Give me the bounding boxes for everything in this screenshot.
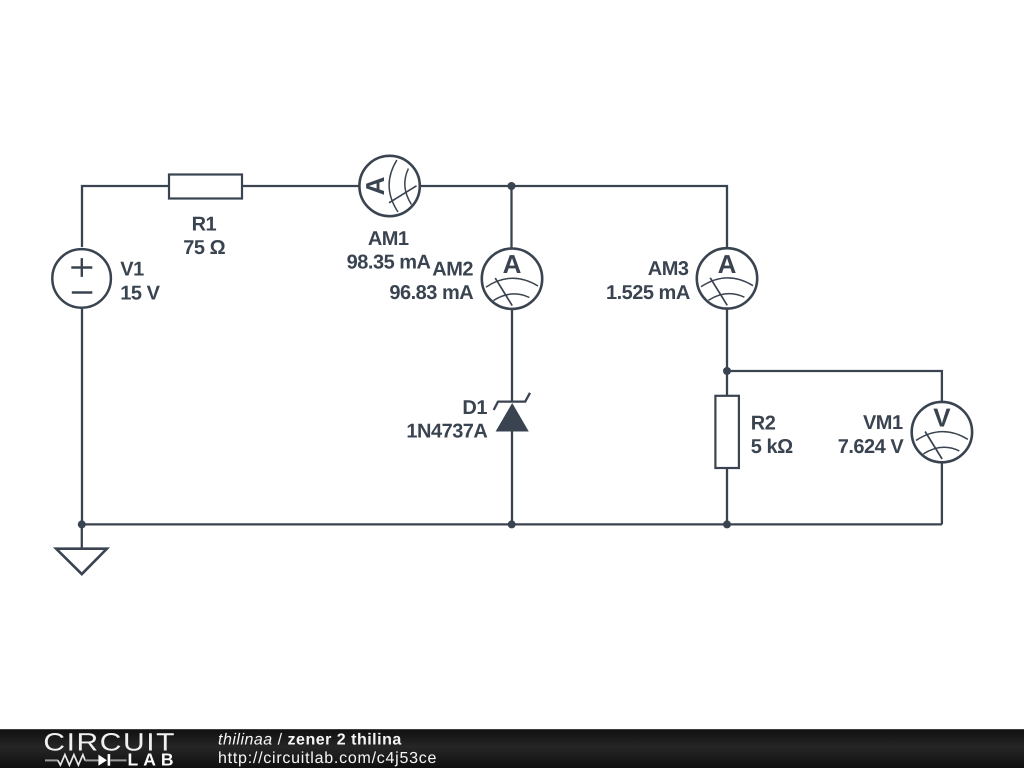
svg-text:15 V: 15 V xyxy=(120,282,160,304)
svg-text:http://circuitlab.com/c4j53ce: http://circuitlab.com/c4j53ce xyxy=(218,750,437,767)
svg-text:7.624 V: 7.624 V xyxy=(838,436,905,458)
CircuitLab logo diode triangle xyxy=(98,755,107,766)
svg-text:96.83 mA: 96.83 mA xyxy=(389,282,473,304)
node junction at top rail x=511.5 xyxy=(508,182,516,190)
svg-text:A: A xyxy=(360,176,390,195)
svg-text:98.35 mA: 98.35 mA xyxy=(347,252,431,274)
svg-text:V: V xyxy=(933,403,951,433)
svg-text:D1: D1 xyxy=(462,397,487,419)
ammeter AM3 xyxy=(697,248,757,308)
voltage source V1 xyxy=(52,249,111,308)
svg-text:R2: R2 xyxy=(751,412,776,434)
svg-text:VM1: VM1 xyxy=(863,412,903,434)
svg-text:R1: R1 xyxy=(192,213,217,235)
node junction bottom R2 xyxy=(723,520,731,528)
wire V1 bottom xyxy=(81,309,83,524)
svg-text:V1: V1 xyxy=(120,259,144,281)
wire node to R2 xyxy=(726,371,728,396)
wire D1 to bottom rail xyxy=(511,431,513,525)
wire node to AM2 xyxy=(510,186,512,248)
svg-text:thilinaa / zener 2 thilina: thilinaa / zener 2 thilina xyxy=(218,732,402,749)
wire AM3 to node xyxy=(726,309,728,371)
svg-text:75 Ω: 75 Ω xyxy=(183,237,225,259)
footer bar xyxy=(0,729,1024,768)
svg-text:LAB: LAB xyxy=(128,749,179,768)
voltmeter VM1 xyxy=(912,402,972,462)
svg-text:1N4737A: 1N4737A xyxy=(406,420,487,442)
resistor R2 xyxy=(715,396,739,468)
wire AM2 to D1 xyxy=(511,310,513,403)
svg-text:AM3: AM3 xyxy=(648,258,689,280)
wire ground lead xyxy=(81,524,83,548)
node junction bottom D1 xyxy=(508,520,516,528)
ammeter AM1 xyxy=(359,156,419,216)
zener diode D1 xyxy=(494,393,530,432)
wire R2 to bottom rail xyxy=(726,468,728,524)
ammeter AM2 xyxy=(482,249,542,309)
wire R1 to AM1 xyxy=(242,185,359,187)
node junction at x=727 y=371 xyxy=(723,367,731,375)
ground xyxy=(56,549,107,574)
wire AM1 to AM3 top corner xyxy=(421,186,727,247)
wire VM1 to bottom rail xyxy=(941,463,943,524)
wire node to VM1 xyxy=(727,371,942,401)
svg-text:1.525 mA: 1.525 mA xyxy=(606,282,690,304)
CircuitLab logo resistor-diode squiggle xyxy=(45,754,127,766)
svg-text:5 kΩ: 5 kΩ xyxy=(751,436,793,458)
svg-text:AM2: AM2 xyxy=(432,258,473,280)
node junction bottom left ground xyxy=(78,520,86,528)
svg-text:A: A xyxy=(503,249,522,279)
svg-text:AM1: AM1 xyxy=(368,228,409,250)
svg-text:A: A xyxy=(718,249,737,279)
resistor R1 xyxy=(169,175,242,199)
CircuitLab logo CIRCUIT text xyxy=(43,729,176,757)
wire V1 top to R1 xyxy=(82,186,169,247)
wire bottom rail xyxy=(82,523,942,525)
